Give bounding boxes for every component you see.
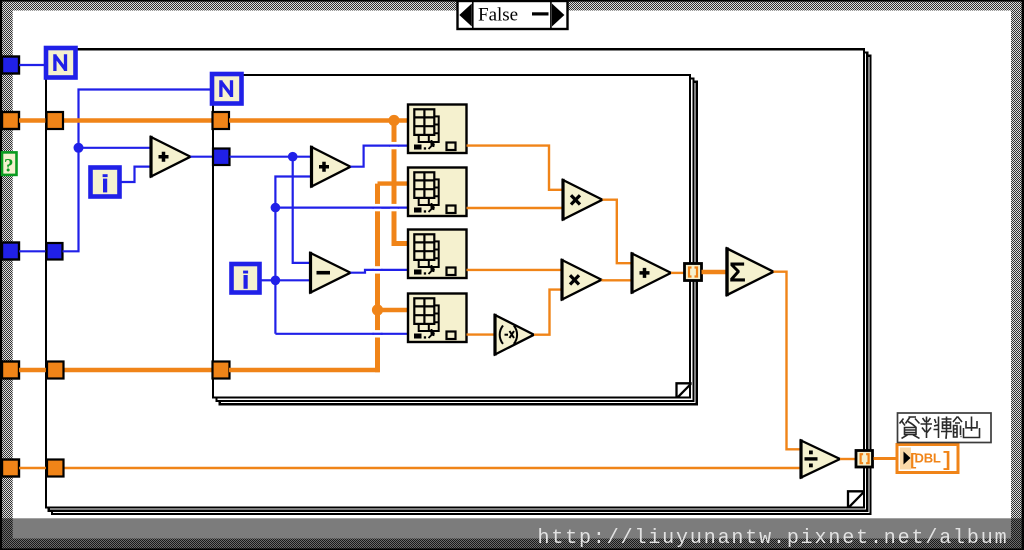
- outer iteration terminal i: [91, 168, 120, 197]
- thin orange wire row y=468 (left edge to divide): [19, 467, 801, 469]
- wire inner add out to box1 blue input: [351, 146, 409, 167]
- inner add function: [312, 146, 351, 188]
- label box 資料輸出: [898, 413, 992, 443]
- window border left black line: [0, 0, 2, 550]
- case selector label "False": [458, 1, 568, 29]
- DBL indicator terminal: [897, 445, 958, 474]
- inner orange tunnel y=120: [213, 112, 230, 129]
- thick orange riser x=377.5 (bottom row up to box2 row): [375, 184, 380, 373]
- thick orange wire row y=120 (left edge to box1): [19, 118, 216, 122]
- thick orange wire inside inner loop y=370: [229, 368, 380, 372]
- left edge terminal blue 4: [2, 243, 19, 260]
- index array box4: [408, 294, 467, 343]
- case structure frame 1 / for-loop frame (front): [46, 49, 864, 507]
- svg-text:DBL: DBL: [915, 451, 941, 466]
- wire negate out to mult2 bottom: [534, 290, 562, 335]
- window border top dither band: [0, 0, 1024, 11]
- index array box3: [408, 230, 467, 279]
- orange junction dot at (377.5,310): [372, 304, 383, 315]
- blue junction dot at (275.4,207.6): [271, 203, 281, 213]
- wire sigma out down to divide top: [774, 272, 802, 450]
- output tunnel on case right edge: [856, 451, 873, 468]
- window border right dither band: [1011, 0, 1024, 550]
- multiply function 1: [563, 179, 603, 221]
- svg-text:http://liuyunantw.pixnet.net/a: http://liuyunantw.pixnet.net/album: [538, 527, 1009, 550]
- wire add2 out to indexing tunnel: [671, 272, 685, 274]
- wire case tunnel to DBL indicator: [874, 457, 898, 460]
- add2 function: [632, 252, 671, 293]
- wire mult2 out to add2 bottom: [602, 279, 633, 281]
- case structure frame 3 (back): [52, 56, 871, 514]
- inner orange tunnel y=370: [213, 362, 230, 379]
- wire from outer i to outer add lower input: [120, 167, 152, 182]
- glyph chu (exit): [964, 417, 980, 438]
- thick orange wire inside inner loop y=120: [229, 118, 408, 122]
- outer orange tunnel y=370: [47, 362, 64, 379]
- wire blue from terminal1 to outer N: [19, 64, 46, 66]
- wire box1 output to mult1 top: [467, 146, 564, 190]
- inner iteration terminal i: [232, 264, 260, 293]
- wire outer add output to inner blue tunnel: [191, 156, 214, 158]
- blue junction dot at (78.5,147.8): [74, 143, 84, 153]
- index array box2: [408, 168, 467, 217]
- thick orange wire row y=370 (left edge to riser): [19, 368, 216, 372]
- inner loop frame 3 (back): [220, 82, 697, 405]
- left edge terminal orange 6: [2, 460, 19, 477]
- window border top black line: [0, 0, 1024, 2]
- divide function: [801, 439, 840, 478]
- outer for-loop N terminal: [46, 48, 76, 78]
- left edge terminal blue 1: [2, 57, 19, 74]
- multiply function 2: [562, 259, 602, 301]
- blue net from outer tunnel up to inner N and outer add: [63, 90, 213, 252]
- blue junction dot at (292.7,156.7): [288, 152, 298, 162]
- glyph liao (rice + measure): [921, 417, 939, 439]
- glyph shu (vehicle + component): [941, 417, 952, 439]
- wire crossings: blue over orange risers with white halo: [373, 142, 400, 338]
- wire mult1 out to add2 top: [603, 200, 633, 264]
- window border bottom black line: [0, 548, 1024, 550]
- negate function (-x): [495, 314, 534, 356]
- case structure frame 2 (middle): [49, 53, 868, 511]
- glyph zi (top: radical, bottom: shell): [900, 417, 920, 428]
- orange junction dot at (394,120.5): [388, 115, 399, 126]
- wire divide out to case tunnel: [840, 458, 856, 460]
- wire box3 output to mult2 top: [467, 269, 563, 271]
- wire box2 output to mult1 bottom: [467, 207, 564, 209]
- svg-text:False: False: [478, 5, 518, 26]
- window border left dither band: [0, 0, 13, 550]
- inner loop frame 2 (middle): [216, 78, 693, 401]
- left edge terminal orange 5: [2, 362, 19, 379]
- inner loop frame 1 (front): [213, 75, 690, 398]
- case structure corner fold: [848, 491, 865, 507]
- wire box4 output to negate: [467, 333, 496, 335]
- wire inner subtract out to box3 blue input: [351, 270, 409, 273]
- wire blue from terminal4 to outer tunnel: [19, 250, 47, 252]
- inner blue tunnel y=156.7: [213, 149, 230, 166]
- svg-text:]: ]: [941, 450, 953, 473]
- window border right black line: [1022, 0, 1024, 550]
- outer orange tunnel y=120: [47, 112, 64, 129]
- left edge terminal orange 2: [2, 112, 19, 129]
- watermark band: [0, 518, 1024, 550]
- inner loop corner fold: [677, 383, 692, 398]
- inner blue wire: tunnel to add/sub verticals: [230, 157, 312, 263]
- svg-text:Σ: Σ: [729, 257, 746, 288]
- thick orange branch to box2: [378, 181, 409, 185]
- outer blue tunnel y=251: [47, 243, 63, 260]
- window border bottom dither band: [0, 539, 1024, 550]
- svg-text:?: ?: [4, 156, 14, 177]
- sum (sigma) function: [727, 247, 774, 296]
- outer add function: [151, 136, 191, 178]
- thick orange wire tunnel to sigma: [702, 270, 728, 275]
- inner for-loop N terminal: [212, 74, 242, 104]
- orange branch to box4: [378, 308, 409, 312]
- inner i net: vertical with branches: [260, 177, 409, 334]
- index array box1: [408, 105, 467, 154]
- left edge terminal green ?: [2, 152, 17, 176]
- outer orange tunnel y=468: [47, 460, 64, 477]
- indexing tunnel on inner loop right edge: [685, 264, 702, 281]
- blue junction dot at (275.4,280.3): [271, 276, 281, 286]
- inner subtract function: [311, 252, 351, 294]
- thick orange riser x=394 (box1 row to box3): [394, 121, 408, 244]
